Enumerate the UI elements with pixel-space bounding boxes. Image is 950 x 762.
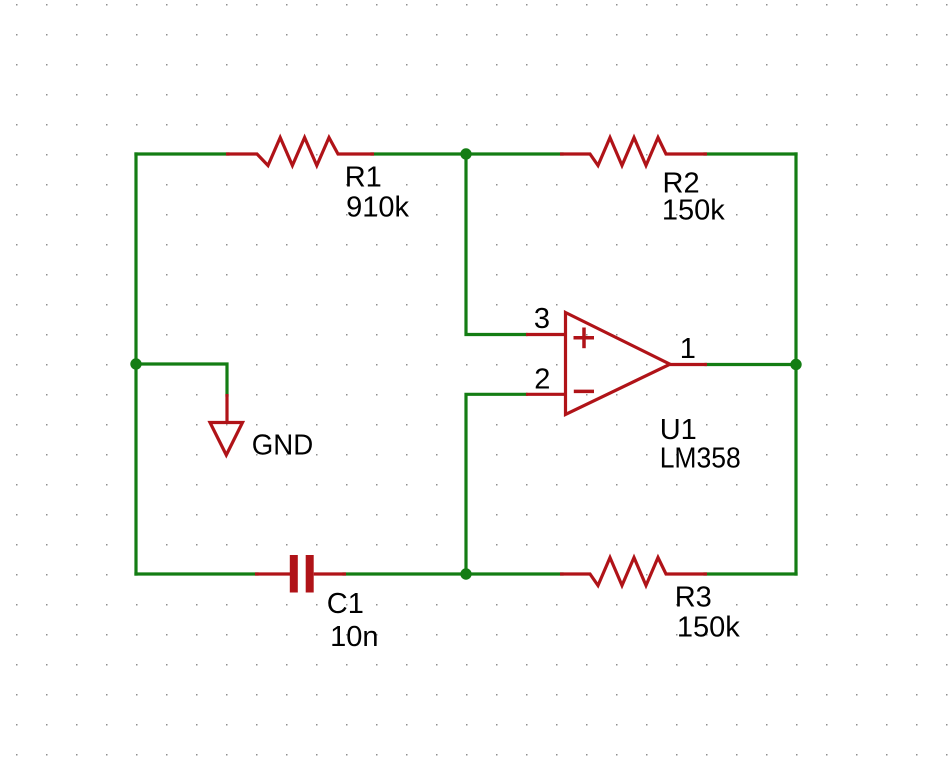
wire top-left segment — [136, 152, 228, 155]
wire top net: left corner to right corner — [136, 154, 796, 574]
svg-text:150k: 150k — [677, 611, 740, 643]
svg-text:910k: 910k — [346, 191, 409, 223]
svg-text:R1: R1 — [345, 162, 382, 194]
svg-text:2: 2 — [534, 363, 550, 395]
op-amp U1 — [526, 313, 707, 415]
resistor R2 — [560, 138, 707, 166]
svg-text:LM358: LM358 — [660, 443, 741, 475]
wire left vertical — [134, 154, 137, 574]
svg-text:1: 1 — [680, 333, 696, 365]
svg-text:3: 3 — [534, 303, 550, 335]
wire right vertical — [794, 154, 797, 574]
svg-text:C1: C1 — [327, 588, 364, 620]
wire bottom-middle segment — [344, 572, 562, 575]
ground — [210, 394, 243, 455]
wire bottom-right segment — [705, 572, 796, 575]
wire top-middle segment — [372, 152, 562, 155]
wire to op-amp pin 3 — [466, 154, 526, 335]
wire gnd stub horizontal — [136, 364, 227, 395]
svg-text:R3: R3 — [675, 581, 712, 613]
svg-text:10n: 10n — [330, 621, 378, 653]
resistor R1 — [226, 138, 374, 166]
node junction right — [790, 359, 801, 370]
wire bottom-left segment — [136, 572, 257, 575]
resistor R3 — [560, 558, 707, 586]
node junction top — [460, 148, 471, 159]
node junction bottom — [460, 568, 471, 579]
svg-text:U1: U1 — [660, 414, 697, 446]
svg-text:150k: 150k — [662, 195, 725, 227]
op-amp plus input marker — [574, 328, 595, 349]
op-amp minus input marker — [574, 390, 594, 394]
node junction left — [130, 358, 141, 369]
capacitor C1 — [255, 555, 346, 593]
wire to op-amp pin 2 — [466, 394, 526, 574]
svg-text:GND: GND — [252, 429, 314, 461]
wire op-amp output to right vertical — [706, 363, 796, 366]
wire top-right segment — [705, 152, 796, 155]
